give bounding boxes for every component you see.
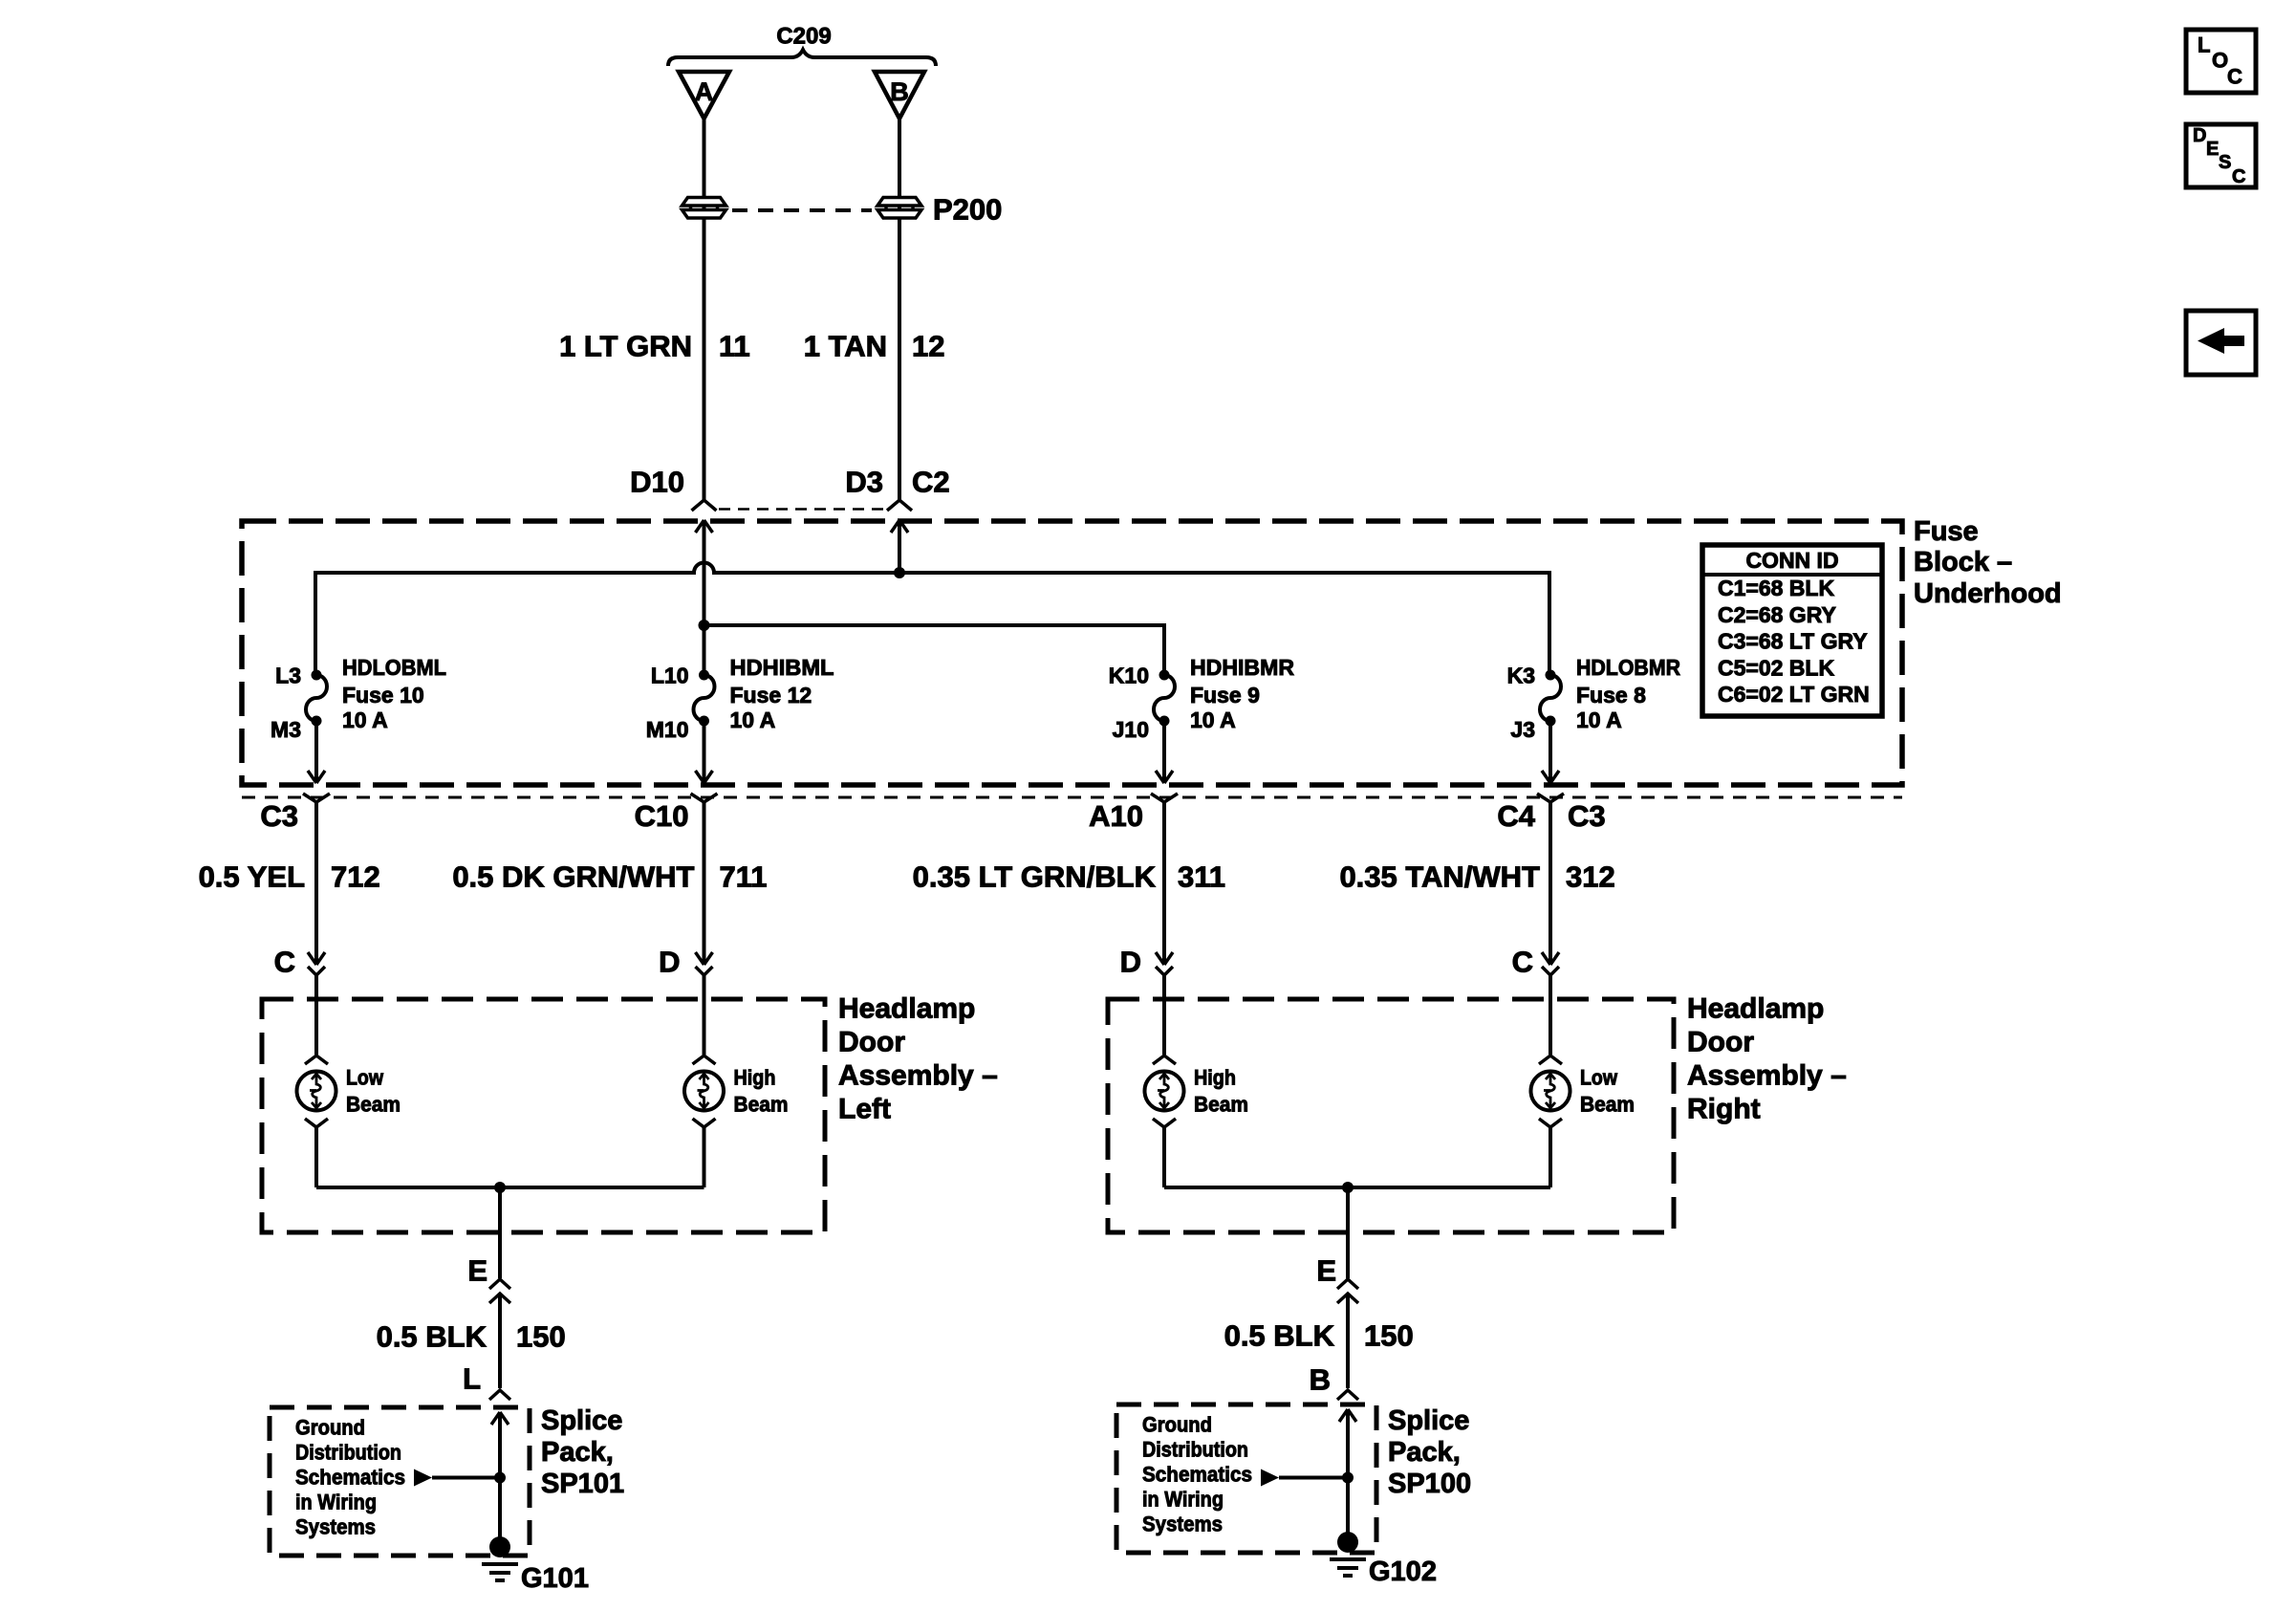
svg-text:D10: D10 (630, 466, 684, 499)
svg-text:C4: C4 (1497, 799, 1535, 833)
wire: LT GRN feed inside block down to fuse 12 (703, 520, 706, 675)
svg-text:10 A: 10 A (1576, 708, 1622, 732)
svg-text:Systems: Systems (1142, 1513, 1223, 1536)
label Low Beam (346, 1066, 401, 1117)
svg-text:K3: K3 (1507, 664, 1535, 688)
svg-text:Splice: Splice (1388, 1405, 1469, 1436)
svg-text:Headlamp: Headlamp (1687, 993, 1824, 1025)
wire into headlamp door assembly (1162, 975, 1166, 1055)
connector chevron at D3 (887, 500, 912, 511)
wire into splice SP100 (1346, 1409, 1350, 1534)
svg-text:C2: C2 (912, 466, 950, 499)
in-line connector chevron (1156, 967, 1173, 975)
wire below Low Beam lamp (1549, 1127, 1552, 1187)
svg-text:Beam: Beam (734, 1093, 789, 1117)
svg-text:Assembly –: Assembly – (838, 1060, 998, 1092)
svg-text:10 A: 10 A (730, 708, 776, 732)
svg-text:Right: Right (1687, 1094, 1761, 1125)
svg-text:Low: Low (346, 1066, 384, 1090)
svg-text:311: 311 (1178, 860, 1225, 894)
svg-text:0.35 TAN/WHT: 0.35 TAN/WHT (1339, 860, 1540, 894)
svg-text:HDHIBML: HDHIBML (730, 655, 834, 680)
svg-text:150: 150 (1364, 1319, 1414, 1353)
svg-text:C3: C3 (260, 799, 298, 833)
junction node on LT GRN wire (699, 620, 710, 631)
svg-text:D: D (1120, 946, 1141, 979)
svg-text:10 A: 10 A (1190, 708, 1236, 732)
High Beam lamp (bulb) (1145, 1056, 1184, 1127)
svg-text:L: L (463, 1362, 481, 1396)
svg-text:11: 11 (719, 330, 750, 363)
fuse 10 (HDLOBML) (306, 670, 327, 727)
svg-text:L: L (2198, 33, 2210, 57)
svg-text:Fuse: Fuse (1914, 516, 1979, 547)
fuse 8 (HDLOBMR) (1540, 670, 1561, 727)
bus wire (LT GRN) to fuse 9 (704, 625, 1165, 675)
svg-text:Fuse 10: Fuse 10 (342, 683, 424, 708)
svg-text:O: O (2212, 49, 2228, 73)
label Splice Pack SP101 (541, 1405, 624, 1499)
dashed connector line C2 (top of fuse block) (719, 508, 885, 511)
svg-text:Fuse 8: Fuse 8 (1576, 683, 1646, 708)
wire from fuse block to headlamp connector (314, 802, 318, 965)
svg-text:0.5 BLK: 0.5 BLK (377, 1320, 487, 1354)
label High Beam (1194, 1066, 1248, 1117)
svg-text:Distribution: Distribution (295, 1441, 401, 1465)
svg-text:Beam: Beam (1580, 1093, 1635, 1117)
Headlamp Door Assembly - Right dashed box (1108, 999, 1674, 1232)
exit arrow at fuse block border (fuse 8) (1542, 771, 1559, 783)
svg-text:B: B (1310, 1363, 1331, 1397)
exit arrow at fuse block border (fuse 9) (1156, 771, 1173, 783)
ground distribution dashed box (SP100) (1116, 1404, 1376, 1553)
High Beam lamp (bulb) (684, 1056, 724, 1127)
connector E chevrons (489, 1279, 510, 1289)
splice connector chevron (1337, 1390, 1358, 1400)
in-line connector chevron (696, 967, 713, 975)
svg-text:K10: K10 (1109, 664, 1149, 688)
Y connector symbol at A10 (1151, 794, 1178, 802)
label Headlamp Door Assembly - Left (838, 993, 998, 1125)
wire below fuse 9 (1162, 721, 1166, 782)
DESC button box (2186, 124, 2256, 187)
wire from right junction to connector E (1346, 1187, 1350, 1278)
svg-text:Assembly –: Assembly – (1687, 1060, 1847, 1092)
svg-text:C1=68 BLK: C1=68 BLK (1718, 576, 1834, 600)
svg-text:12: 12 (912, 330, 944, 363)
wire into headlamp door assembly (703, 975, 706, 1055)
svg-text:Splice: Splice (541, 1405, 622, 1436)
svg-text:Beam: Beam (346, 1093, 401, 1117)
wire below fuse 12 (703, 721, 706, 782)
svg-text:Distribution: Distribution (1142, 1438, 1248, 1462)
fuse 12 name label (730, 655, 834, 732)
wire into headlamp door assembly (314, 975, 318, 1055)
exit arrow at fuse block border (fuse 10) (308, 771, 325, 783)
svg-text:C: C (1512, 946, 1533, 979)
Fuse Block - Underhood dashed outline (242, 521, 1902, 785)
bus wire (TAN) to fuse 10 and fuse 8, hops over LT GRN wire (315, 563, 1549, 677)
svg-text:HDLOBML: HDLOBML (342, 655, 446, 680)
wire into splice SP101 (498, 1412, 502, 1538)
reference pointer triangle (SP100) (1261, 1469, 1279, 1487)
svg-text:J3: J3 (1510, 717, 1535, 742)
dashed connector line under fuse block (242, 796, 1902, 799)
label Low Beam (1580, 1066, 1635, 1117)
wire: triangle B down to fuse block (circuit 12, TAN) (898, 119, 901, 500)
svg-text:Systems: Systems (295, 1515, 376, 1539)
svg-text:D3: D3 (845, 466, 883, 499)
svg-text:HDLOBMR: HDLOBMR (1576, 655, 1680, 680)
label High Beam (734, 1066, 789, 1117)
svg-text:SP100: SP100 (1388, 1469, 1471, 1499)
fuse 8 name label (1576, 655, 1680, 732)
ground distribution dashed box (SP101) (270, 1407, 530, 1556)
splice junction node SP101 (494, 1472, 506, 1484)
svg-text:High: High (734, 1066, 776, 1090)
in-line connector chevron (308, 967, 325, 975)
back-arrow button box (2186, 311, 2256, 375)
LOC button box (2186, 30, 2256, 93)
svg-text:C: C (274, 946, 295, 979)
svg-text:Left: Left (838, 1094, 891, 1125)
Y connector symbol at C10 (691, 794, 718, 802)
wire below fuse 8 (1549, 721, 1552, 782)
svg-text:CONN ID: CONN ID (1745, 548, 1838, 573)
label Fuse Block - Underhood (1914, 516, 2062, 609)
svg-text:E: E (1316, 1254, 1336, 1288)
in-line connector chevron (1542, 967, 1559, 975)
entry arrow into splice pack SP100 (1339, 1409, 1356, 1422)
junction node right assembly (1342, 1182, 1354, 1193)
label Ground Distribution Schematics in Wiring Systems (295, 1416, 405, 1539)
fuse 10 name label (342, 655, 446, 732)
svg-text:0.35 LT GRN/BLK: 0.35 LT GRN/BLK (913, 860, 1157, 894)
junction node on TAN bus (894, 567, 905, 578)
splice connector chevron (489, 1390, 510, 1400)
svg-text:D: D (659, 946, 680, 979)
svg-text:Door: Door (838, 1027, 905, 1058)
wire below High Beam lamp (1162, 1127, 1166, 1187)
svg-text:Schematics: Schematics (1142, 1463, 1252, 1487)
entry arrow into splice pack SP101 (491, 1412, 509, 1425)
wire below Low Beam lamp (314, 1127, 318, 1187)
svg-text:1 TAN: 1 TAN (804, 330, 887, 363)
svg-text:C: C (2232, 166, 2245, 187)
ground G102 (1330, 1532, 1366, 1576)
junction node left assembly (494, 1182, 506, 1193)
svg-text:B: B (890, 77, 909, 106)
fuse 12 (HDHIBML) (694, 670, 715, 727)
svg-text:C3=68 LT GRY: C3=68 LT GRY (1718, 629, 1868, 654)
svg-text:HDHIBMR: HDHIBMR (1190, 655, 1294, 680)
splice junction node SP100 (1342, 1472, 1354, 1484)
wire below High Beam lamp (703, 1127, 706, 1187)
Low Beam lamp (bulb) (297, 1056, 336, 1127)
svg-text:C3: C3 (1568, 799, 1606, 833)
svg-text:L3: L3 (275, 664, 301, 688)
svg-text:A10: A10 (1089, 799, 1143, 833)
entry arrow into fuse block (LT GRN wire) (696, 520, 713, 533)
svg-text:in Wiring: in Wiring (1142, 1488, 1224, 1512)
svg-text:711: 711 (720, 860, 768, 894)
svg-text:SP101: SP101 (541, 1469, 624, 1499)
svg-text:C10: C10 (635, 799, 689, 833)
svg-text:G101: G101 (521, 1563, 589, 1594)
ground wire 0.5 BLK (1346, 1294, 1350, 1388)
label Splice Pack SP100 (1388, 1405, 1471, 1499)
exit arrow at fuse block border (fuse 12) (696, 771, 713, 783)
svg-text:Door: Door (1687, 1027, 1754, 1058)
reference pointer triangle (SP101) (414, 1469, 432, 1487)
grommet P200 on left wire (682, 198, 726, 219)
svg-text:E: E (467, 1254, 487, 1288)
svg-text:C2=68 GRY: C2=68 GRY (1718, 602, 1836, 627)
ground G101 (482, 1536, 518, 1580)
off-page triangle connector A (679, 72, 729, 119)
svg-text:S: S (2219, 152, 2231, 173)
fuse 9 name label (1190, 655, 1294, 732)
svg-text:10 A: 10 A (342, 708, 388, 732)
in-line connector arrow (down) (696, 952, 713, 965)
svg-text:L10: L10 (651, 664, 689, 688)
svg-text:Ground: Ground (1142, 1413, 1212, 1437)
svg-text:in Wiring: in Wiring (295, 1491, 377, 1514)
Y connector symbol at C3 (303, 794, 330, 802)
fuse 9 (HDHIBMR) (1154, 670, 1175, 727)
svg-text:Schematics: Schematics (295, 1466, 405, 1490)
in-line connector arrow (down) (1156, 952, 1173, 965)
svg-text:A: A (695, 77, 714, 106)
svg-text:Low: Low (1580, 1066, 1618, 1090)
label Headlamp Door Assembly - Right (1687, 993, 1847, 1125)
wire from fuse block to headlamp connector (1162, 802, 1166, 965)
svg-text:C6=02 LT GRN: C6=02 LT GRN (1718, 682, 1870, 707)
svg-text:712: 712 (331, 860, 380, 894)
svg-text:C209: C209 (776, 24, 831, 50)
svg-text:C: C (2227, 65, 2242, 89)
svg-text:0.5 BLK: 0.5 BLK (1224, 1319, 1335, 1353)
svg-text:High: High (1194, 1066, 1236, 1090)
svg-text:M3: M3 (271, 717, 301, 742)
Low Beam lamp (bulb) (1531, 1056, 1570, 1127)
wire below fuse 10 (314, 721, 318, 782)
ground bus inside right headlamp assembly (1164, 1186, 1550, 1189)
svg-text:Fuse 12: Fuse 12 (730, 683, 812, 708)
svg-text:M10: M10 (646, 717, 689, 742)
svg-text:150: 150 (516, 1320, 566, 1354)
wire from fuse block to headlamp connector (1549, 802, 1552, 965)
off-page triangle connector B (875, 72, 924, 119)
CONN ID table (1702, 545, 1882, 716)
svg-text:E: E (2206, 139, 2219, 160)
svg-text:Headlamp: Headlamp (838, 993, 975, 1025)
label Ground Distribution Schematics in Wiring Systems (1142, 1413, 1252, 1536)
ground wire 0.5 BLK (498, 1294, 502, 1388)
wire: triangle A down to fuse block (circuit 11, LT GRN) (703, 119, 706, 500)
wire from pointer to splice (1279, 1476, 1348, 1480)
connector E chevrons (1337, 1279, 1358, 1289)
connector chevron at D10 (692, 500, 717, 511)
ground bus inside left headlamp assembly (316, 1186, 704, 1189)
svg-text:Pack,: Pack, (1388, 1437, 1461, 1468)
wire from pointer to splice (432, 1476, 500, 1480)
svg-text:0.5 YEL: 0.5 YEL (199, 860, 305, 894)
grommet P200 on right wire (877, 198, 921, 219)
wire from fuse block to headlamp connector (703, 802, 706, 965)
entry arrow into fuse block (TAN wire) (891, 520, 908, 533)
svg-text:P200: P200 (933, 193, 1002, 227)
svg-text:312: 312 (1566, 860, 1615, 894)
in-line connector arrow (down) (1542, 952, 1559, 965)
dashed tie between P200 grommets (732, 208, 872, 212)
svg-text:C5=02 BLK: C5=02 BLK (1718, 655, 1834, 680)
wire: TAN feed inside block to bus (898, 520, 901, 573)
svg-text:J10: J10 (1113, 717, 1149, 742)
C209 bracket (brace) (668, 50, 936, 66)
svg-text:Beam: Beam (1194, 1093, 1248, 1117)
svg-text:Ground: Ground (295, 1416, 365, 1440)
svg-text:Block –: Block – (1914, 547, 2012, 577)
Y connector symbol at C4 (1537, 794, 1564, 802)
Headlamp Door Assembly - Left dashed box (262, 999, 825, 1232)
wire from left junction to connector E (498, 1187, 502, 1278)
wire into headlamp door assembly (1549, 975, 1552, 1055)
svg-text:D: D (2193, 125, 2206, 146)
svg-text:1 LT GRN: 1 LT GRN (559, 330, 692, 363)
svg-text:Fuse 9: Fuse 9 (1190, 683, 1260, 708)
in-line connector arrow (down) (308, 952, 325, 965)
svg-text:Underhood: Underhood (1914, 578, 2062, 609)
svg-text:G102: G102 (1369, 1557, 1437, 1587)
svg-text:Pack,: Pack, (541, 1437, 614, 1468)
svg-text:0.5 DK GRN/WHT: 0.5 DK GRN/WHT (452, 860, 694, 894)
